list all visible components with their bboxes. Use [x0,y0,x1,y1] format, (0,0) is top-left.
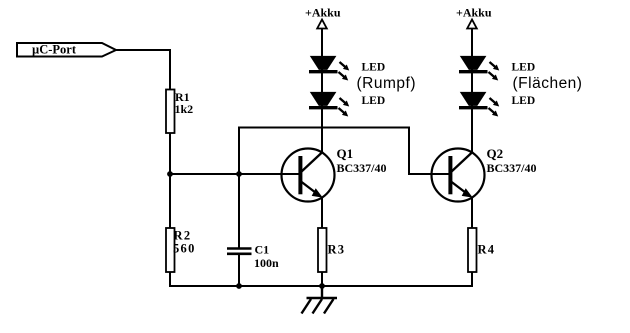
diode LED2 [309,92,349,117]
wire [471,29,473,152]
power +Akku right [467,20,477,29]
wire [170,173,300,175]
svg-text:(Rumpf): (Rumpf) [357,75,416,92]
resistor R2 [166,228,175,272]
connector µC-Port [17,43,116,57]
wire [169,285,473,287]
transistor Q2 [409,149,485,202]
node A [167,171,173,177]
ground [302,286,338,314]
node C [236,283,242,289]
svg-text:R3: R3 [328,243,346,257]
wire [321,272,323,286]
svg-text:R2: R2 [174,229,192,243]
svg-text:BC337/40: BC337/40 [487,161,537,175]
wire [321,29,323,152]
wire [116,50,170,90]
resistor R1 [166,90,175,134]
svg-text:BC337/40: BC337/40 [337,161,387,175]
svg-text:1k2: 1k2 [175,102,194,116]
power +Akku left [317,20,327,29]
wire [471,197,473,228]
node B [236,171,242,177]
svg-text:LED: LED [512,95,536,107]
transistor Q1 [170,149,335,202]
svg-text:Q2: Q2 [487,146,504,161]
svg-text:+Akku: +Akku [305,6,341,20]
capacitor C1 [227,174,252,286]
svg-text:LED: LED [362,62,386,74]
svg-text:100n: 100n [254,256,279,270]
resistor R4 [468,228,477,272]
wire [169,272,171,287]
svg-text:(Flächen): (Flächen) [513,75,583,92]
resistor R3 [318,228,327,272]
svg-text:C1: C1 [255,243,270,257]
svg-text:R4: R4 [478,243,496,257]
svg-text:560: 560 [173,242,196,256]
node D [319,283,325,289]
svg-text:µC-Port: µC-Port [32,43,77,57]
diode LED3 [459,56,499,81]
svg-text:LED: LED [512,62,536,74]
wire [321,197,323,228]
diode LED1 [309,56,349,81]
wire [471,272,473,287]
wire [169,133,171,228]
svg-text:Q1: Q1 [337,146,354,161]
svg-text:+Akku: +Akku [456,6,492,20]
diode LED4 [459,92,499,117]
svg-text:LED: LED [362,95,386,107]
wire [239,128,452,175]
